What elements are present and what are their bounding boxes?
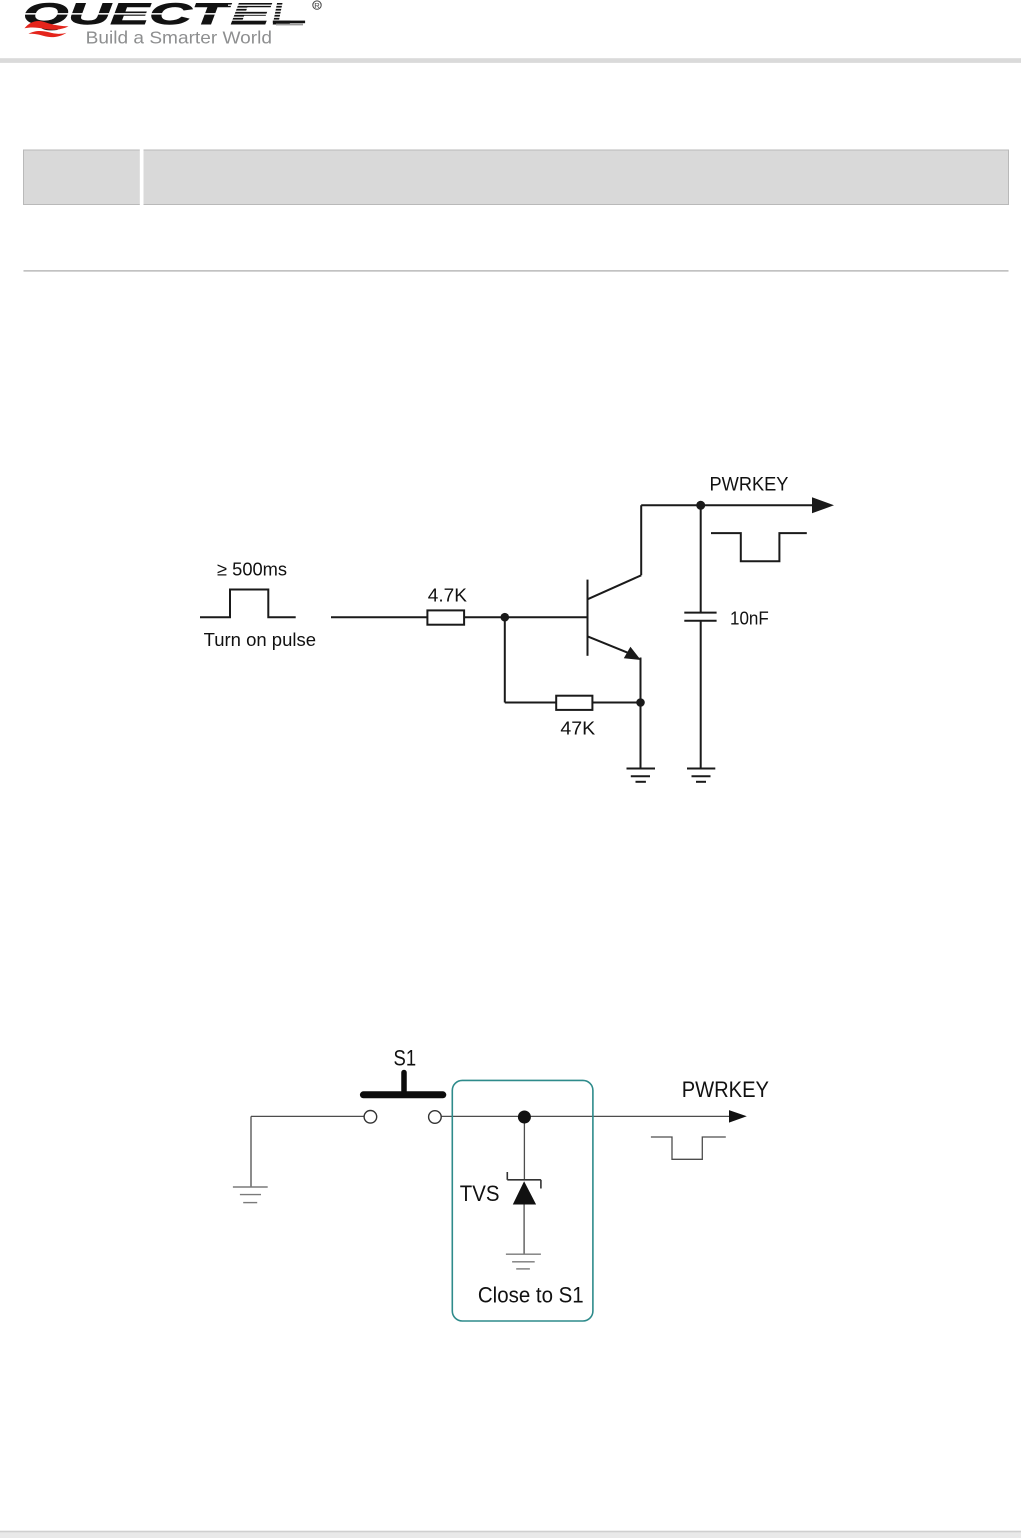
- ground left: [233, 1187, 268, 1203]
- header rule: [0, 58, 1021, 63]
- PWRKEY arrowhead: [812, 497, 834, 513]
- TVS bottom wire: [523, 1205, 525, 1255]
- node at emitter/47K: [636, 698, 645, 707]
- protection box: [452, 1080, 593, 1321]
- switch contact left: [364, 1111, 377, 1124]
- ground emitter: [627, 769, 656, 782]
- resistor 47K body: [556, 696, 592, 710]
- svg-text:R: R: [314, 1, 320, 10]
- svg-text:≥ 500ms: ≥ 500ms: [217, 559, 287, 580]
- emitter arrowhead: [624, 647, 641, 660]
- svg-text:Turn on pulse: Turn on pulse: [204, 629, 316, 650]
- TVS top wire: [523, 1117, 525, 1180]
- svg-text:4.7K: 4.7K: [428, 585, 468, 606]
- L gray under-bar: [276, 24, 303, 26]
- capacitor C1 top plate: [684, 612, 716, 614]
- capacitor C1 wire upper: [700, 505, 702, 612]
- svg-text:Close to S1: Close to S1: [478, 1283, 584, 1308]
- node TVS: [518, 1111, 531, 1124]
- transistor Q1 collector diagonal: [588, 575, 641, 599]
- registered trademark: [313, 1, 321, 10]
- capacitor C1 bottom plate: [684, 620, 716, 622]
- collector vertical wire: [640, 505, 642, 575]
- wire node down to 47K: [504, 617, 506, 702]
- footer top line: [0, 1531, 1021, 1533]
- svg-text:10nF: 10nF: [730, 608, 769, 629]
- PWRKEY arrowhead c2: [729, 1110, 747, 1123]
- svg-text:Build a Smarter World: Build a Smarter World: [86, 28, 272, 48]
- ground capacitor: [687, 769, 715, 782]
- red swoosh: [25, 21, 69, 30]
- switch contact right: [429, 1111, 442, 1124]
- svg-text:47K: 47K: [560, 718, 595, 739]
- section divider line: [24, 270, 1009, 271]
- wire left vertical to ground: [250, 1116, 252, 1186]
- TVS cathode bar: [507, 1172, 541, 1189]
- turn-on pulse waveform: [200, 590, 296, 618]
- TVS diode triangle: [513, 1181, 536, 1204]
- gray table header banner: [24, 150, 1009, 205]
- svg-text:PWRKEY: PWRKEY: [710, 474, 789, 496]
- logo stencil slit across letters: [22, 13, 228, 15]
- wire S1 to PWRKEY arrow: [441, 1115, 730, 1117]
- capacitor C1 wire lower: [700, 621, 702, 768]
- wire 47K to emitter node: [592, 702, 640, 704]
- resistor 4.7K body: [427, 610, 464, 624]
- emitter vertical wire: [640, 658, 642, 769]
- PWRKEY pulse waveform: [711, 533, 807, 561]
- wire left to S1: [251, 1115, 364, 1117]
- switch S1 stub: [401, 1073, 407, 1092]
- input wire: [331, 616, 427, 618]
- wire to 47K left: [505, 702, 556, 704]
- PWRKEY pulse waveform c2: [651, 1137, 726, 1159]
- ground TVS: [506, 1254, 541, 1269]
- banner white divider: [140, 149, 144, 206]
- node at base: [501, 613, 510, 622]
- node at PWRKEY/cap: [696, 501, 705, 510]
- transistor Q1 base bar: [587, 580, 589, 656]
- transistor Q1 emitter diagonal: [588, 637, 628, 653]
- wire resistor to base: [464, 616, 586, 618]
- L bottom bar: [273, 21, 305, 24]
- switch S1 bar: [363, 1091, 442, 1098]
- svg-text:S1: S1: [394, 1045, 417, 1070]
- stripes over E and L: [228, 5, 309, 21]
- svg-text:TVS: TVS: [460, 1181, 500, 1206]
- footer bar: [0, 1532, 1021, 1538]
- svg-text:PWRKEY: PWRKEY: [682, 1077, 769, 1102]
- PWRKEY output wire: [641, 504, 813, 506]
